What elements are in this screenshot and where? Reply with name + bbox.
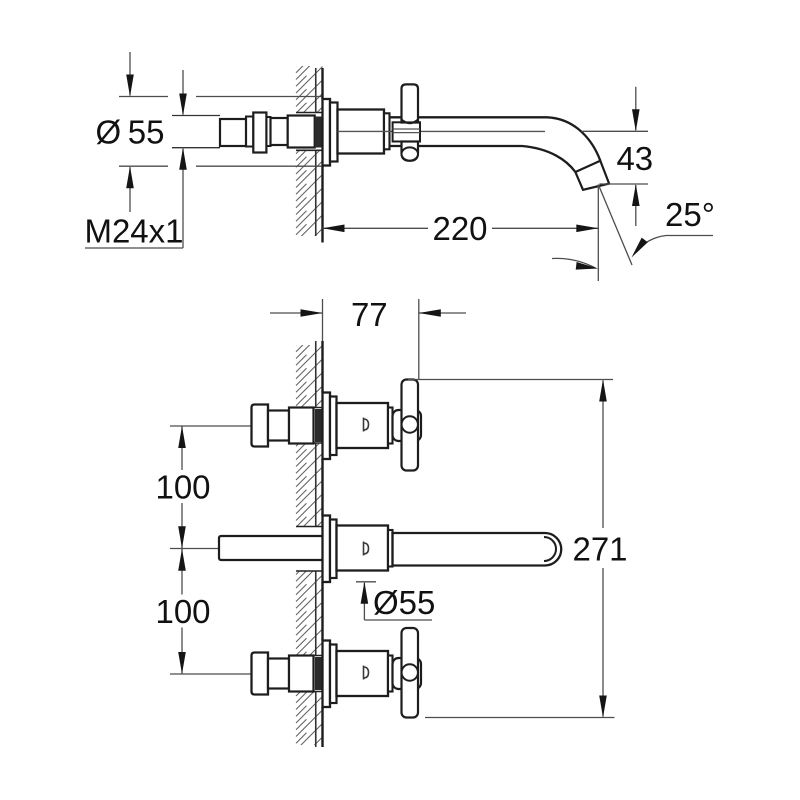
svg-text:Ø55: Ø55 bbox=[373, 584, 435, 621]
svg-text:271: 271 bbox=[572, 531, 627, 568]
svg-text:Ø 55: Ø 55 bbox=[96, 114, 165, 151]
svg-text:M24x1: M24x1 bbox=[84, 213, 183, 250]
svg-text:220: 220 bbox=[432, 210, 487, 247]
svg-text:77: 77 bbox=[351, 296, 388, 333]
svg-text:100: 100 bbox=[155, 593, 210, 630]
svg-text:25°: 25° bbox=[665, 196, 715, 233]
svg-text:100: 100 bbox=[155, 468, 210, 505]
svg-text:43: 43 bbox=[616, 140, 653, 177]
